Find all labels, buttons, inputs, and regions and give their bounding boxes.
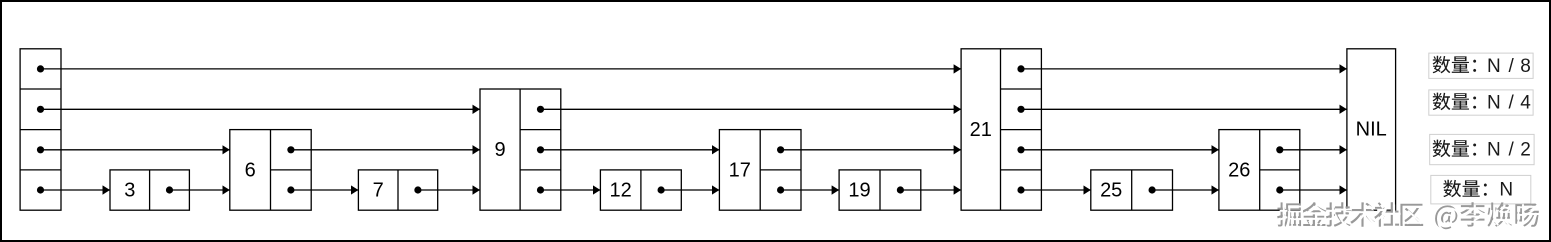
node 3 <box>110 170 189 210</box>
svg-text:2: 2 <box>1520 140 1531 161</box>
node 6 pointer dot y=149.8 <box>287 146 294 153</box>
wire arrow: node 3 to node 6 <box>170 189 230 191</box>
head pointer dot level 2 <box>37 146 44 153</box>
node 12 <box>600 170 681 210</box>
node 21 pointer dot y=68.9 <box>1017 65 1024 72</box>
wire arrow: node 9 L3 to node 21 <box>541 108 962 110</box>
svg-text:9: 9 <box>495 139 506 161</box>
wire arrow: node 9 L2 to node 17 <box>541 149 720 151</box>
svg-text:19: 19 <box>848 180 870 202</box>
node 21 pointer dot y=149.8 <box>1017 146 1024 153</box>
node 19 pointer dot y=190.0 <box>897 186 904 193</box>
wire arrow: head L2 to node 6 <box>41 149 230 151</box>
node 17 pointer dot y=190.0 <box>777 186 784 193</box>
head pointer dot level 4 <box>37 65 44 72</box>
wire arrow: node 26 L2 to NIL <box>1280 149 1347 151</box>
wire arrow: head L3 to node 9 <box>41 108 481 110</box>
svg-text:6: 6 <box>245 159 256 181</box>
svg-text:21: 21 <box>970 119 992 141</box>
node 9 pointer dot y=109.3 <box>537 106 544 113</box>
wire arrow: node 6 L1 to node 7 <box>291 189 359 191</box>
wire arrow: node 6 L2 to node 9 <box>291 149 480 151</box>
wire arrow: node 19 to node 21 <box>900 189 961 191</box>
wire arrow: node 26 L1 to NIL <box>1280 189 1347 191</box>
NIL node <box>1347 49 1396 210</box>
svg-text:N: N <box>1487 56 1501 77</box>
node 9 pointer dot y=190.0 <box>537 186 544 193</box>
node 9 <box>480 89 561 210</box>
svg-text:17: 17 <box>729 159 751 181</box>
count label N/8 <box>1429 53 1533 78</box>
count label N/2 <box>1430 134 1534 164</box>
svg-text:7: 7 <box>373 180 384 202</box>
node 3 pointer dot y=190.0 <box>166 186 173 193</box>
svg-text:/: / <box>1508 56 1514 77</box>
node 26 pointer dot y=149.8 <box>1276 146 1283 153</box>
svg-text:NIL: NIL <box>1356 119 1387 141</box>
wire arrow: node 21 L2 to node 26 <box>1021 149 1219 151</box>
node 21 <box>961 49 1041 210</box>
node 19 <box>839 170 921 210</box>
node 17 <box>719 130 801 211</box>
wire arrow: head L4 to node 21 <box>41 68 962 70</box>
svg-text:N: N <box>1499 180 1513 201</box>
node 26 <box>1219 130 1300 211</box>
wire arrow: node 17 L1 to node 19 <box>781 189 840 191</box>
svg-text:3: 3 <box>124 180 135 202</box>
watermark 掘金技术社区 @ 李焕旸 <box>1277 202 1541 231</box>
svg-text:26: 26 <box>1228 159 1250 181</box>
svg-text:/: / <box>1508 140 1514 161</box>
count label N <box>1431 175 1531 204</box>
svg-text:25: 25 <box>1100 180 1122 202</box>
node 7 pointer dot y=190.0 <box>414 186 421 193</box>
wire arrow: node 25 to node 26 <box>1152 189 1219 191</box>
wire arrow: node 21 L1 to node 25 <box>1021 189 1091 191</box>
node 6 <box>230 130 311 211</box>
wire arrow: node 12 to node 17 <box>661 189 719 191</box>
node 25 <box>1091 170 1173 210</box>
svg-text:8: 8 <box>1520 56 1531 77</box>
svg-text:N: N <box>1487 93 1501 114</box>
svg-text:4: 4 <box>1520 93 1531 114</box>
wire arrow: node 9 L1 to node 12 <box>541 189 601 191</box>
svg-text:N: N <box>1487 140 1501 161</box>
wire arrow: node 21 L3 to NIL <box>1021 108 1347 110</box>
svg-text:12: 12 <box>609 180 631 202</box>
wire arrow: node 17 L2 to node 21 <box>781 149 962 151</box>
node 26 pointer dot y=190.0 <box>1276 186 1283 193</box>
wire arrow: node 21 L4 to NIL <box>1021 68 1347 70</box>
wire arrow: node 7 to node 9 <box>418 189 480 191</box>
node 17 pointer dot y=149.8 <box>777 146 784 153</box>
node 25 pointer dot y=190.0 <box>1149 186 1156 193</box>
wire arrow: head L1 to node 3 <box>41 189 111 191</box>
head pointer dot level 3 <box>37 106 44 113</box>
head node (4-level header) <box>20 49 61 210</box>
node 6 pointer dot y=190.0 <box>287 186 294 193</box>
svg-text:/: / <box>1508 93 1514 114</box>
node 12 pointer dot y=190.0 <box>658 186 665 193</box>
node 9 pointer dot y=149.8 <box>537 146 544 153</box>
count label N/4 <box>1429 90 1533 115</box>
node 7 <box>358 170 437 210</box>
head pointer dot level 1 <box>37 186 44 193</box>
node 21 pointer dot y=109.3 <box>1017 106 1024 113</box>
node 21 pointer dot y=190.0 <box>1017 186 1024 193</box>
